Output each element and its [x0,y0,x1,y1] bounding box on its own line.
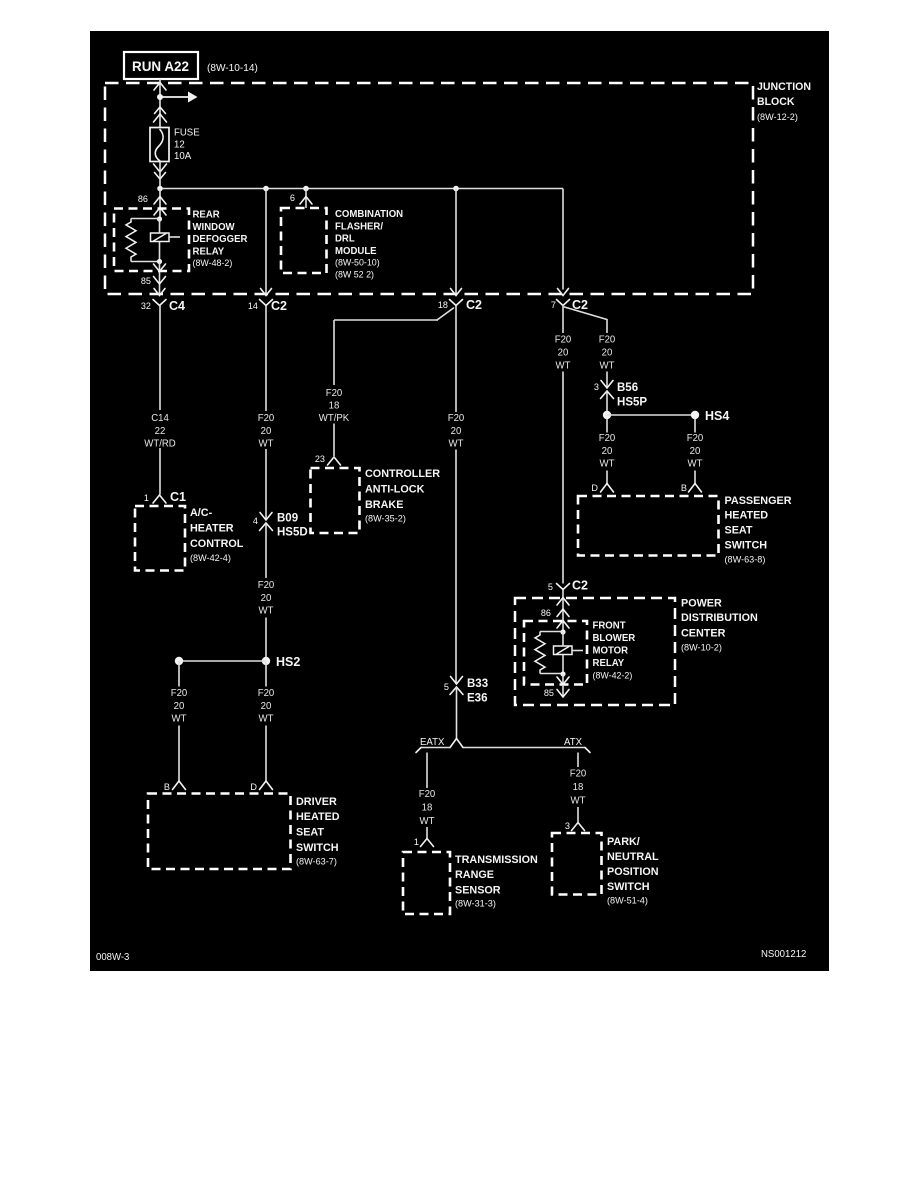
svg-text:86: 86 [138,194,148,205]
pin D chevron [260,781,273,790]
svg-text:6: 6 [290,193,295,204]
arrowhead at junction block border [451,289,462,296]
svg-text:F20: F20 [419,789,436,800]
svg-text:ANTI-LOCK: ANTI-LOCK [365,484,424,496]
svg-text:D: D [250,782,257,793]
svg-text:COMBINATION: COMBINATION [335,209,403,220]
wire relay pin 85 [562,674,564,697]
svg-text:DRL: DRL [335,234,355,245]
wire B33 to transmission split [456,687,458,739]
svg-text:WT: WT [259,606,274,617]
svg-text:86: 86 [541,608,551,619]
passenger heated seat switch label [725,495,792,566]
svg-text:CONTROLLER: CONTROLLER [365,468,440,480]
svg-text:SWITCH: SWITCH [725,540,768,552]
svg-text:SENSOR: SENSOR [455,885,501,897]
combination flasher / DRL module box [281,208,327,273]
svg-text:(8W-12-2): (8W-12-2) [757,112,798,123]
svg-text:PARK/: PARK/ [607,836,640,848]
svg-text:HS4: HS4 [705,408,730,423]
svg-text:F20: F20 [687,433,704,444]
svg-text:WT: WT [556,361,571,372]
svg-text:10A: 10A [174,151,191,162]
wire bus to flasher pin 6 [305,189,307,209]
svg-text:B09: B09 [277,511,298,525]
connector 5 C2 [548,578,588,594]
bus node at pin 6 drop [303,186,309,192]
splice HS4 [691,408,730,423]
wire splice to HS4 [607,414,695,416]
svg-text:85: 85 [544,688,554,699]
svg-text:RUN A22: RUN A22 [132,58,189,74]
svg-text:WINDOW: WINDOW [193,222,236,233]
relay coil top node [560,629,565,634]
wire connector C4 to A/C heater control [159,306,161,411]
svg-text:POWER: POWER [681,598,722,610]
pin B chevron [173,781,186,790]
svg-text:BLOCK: BLOCK [757,96,795,108]
svg-text:DEFOGGER: DEFOGGER [193,234,249,245]
in-line connector B33 E36 [444,676,489,705]
svg-text:3: 3 [594,382,599,393]
power distribution center label [681,598,758,654]
svg-text:20: 20 [261,426,272,437]
svg-text:TRANSMISSION: TRANSMISSION [455,854,538,866]
svg-text:20: 20 [602,348,613,359]
svg-text:HS5P: HS5P [617,395,647,409]
svg-text:MOTOR: MOTOR [593,646,629,657]
wire 5 C2 into power distribution center [562,590,564,633]
pin 86 chevron [557,609,569,617]
power distribution center outer box [515,598,675,705]
svg-text:B: B [681,483,687,494]
svg-text:4: 4 [253,516,258,527]
wire HS2 right leg down to pin D [265,661,267,687]
controller anti-lock brake box [311,468,360,533]
svg-text:HEATED: HEATED [296,811,340,823]
svg-text:CONTROL: CONTROL [190,538,244,550]
svg-text:(8W-31-3): (8W-31-3) [455,899,496,910]
relay contact element [151,233,181,242]
svg-text:(8W-63-8): (8W-63-8) [725,555,766,566]
svg-text:F20: F20 [448,413,465,424]
connector 32 C4 [141,298,186,313]
svg-text:18: 18 [422,803,433,814]
svg-text:(8W-42-4): (8W-42-4) [190,553,231,564]
svg-text:WT: WT [172,714,187,725]
front blower motor relay box [524,621,587,685]
svg-text:F20: F20 [258,688,275,699]
chevron at relay box edge [154,208,166,216]
junction block dashed outline [105,83,753,294]
wire B56 to splice dot [606,391,608,411]
svg-text:FRONT: FRONT [593,621,626,632]
svg-text:32: 32 [141,301,151,312]
svg-text:POSITION: POSITION [607,866,659,878]
wire bus to connector 18 C2 [455,189,457,295]
svg-text:WT/RD: WT/RD [144,439,176,450]
wire 18 C2 down to B33 E36 [455,306,457,413]
svg-text:20: 20 [174,701,185,712]
svg-text:E36: E36 [467,691,488,705]
svg-text:ATX: ATX [564,737,582,748]
relay coil top node [157,216,162,221]
svg-text:MODULE: MODULE [335,246,377,257]
svg-text:B: B [164,782,170,793]
svg-text:(8W-10-14): (8W-10-14) [207,62,258,74]
pin 86 chevron [154,197,166,205]
wire from RUN A22 down to fuse [159,79,161,128]
connector 14 C2 [248,298,287,313]
svg-text:18: 18 [438,300,448,311]
pin 85 chevron [154,277,166,285]
svg-text:HEATER: HEATER [190,523,234,535]
junction block internal bus wire [160,188,563,190]
splice node left [603,411,611,419]
svg-text:C14: C14 [151,413,169,424]
relay coil resistor [535,635,545,670]
svg-text:20: 20 [602,446,613,457]
svg-text:A/C-: A/C- [190,507,212,519]
svg-text:(8W-35-2): (8W-35-2) [365,514,406,525]
svg-text:5: 5 [548,582,553,593]
svg-text:C2: C2 [271,298,287,313]
svg-text:WT/PK: WT/PK [319,413,350,424]
wire bus to relay pin 86 [159,189,161,220]
node with branch arrow [157,94,163,100]
wire relay pin 85 down [159,262,161,295]
svg-text:(8W-50-10): (8W-50-10) [335,258,380,268]
pin D chevron [601,484,614,493]
svg-text:WT: WT [259,439,274,450]
wire splice to pin D [606,419,608,433]
splice HS2 [175,654,300,669]
svg-text:20: 20 [261,593,272,604]
svg-text:C2: C2 [466,297,482,312]
svg-text:B33: B33 [467,676,488,690]
wire 7 C2 diagonal to B56 branch [565,307,608,320]
svg-text:EATX: EATX [420,737,445,748]
svg-text:HS2: HS2 [276,654,300,669]
svg-text:WT: WT [571,796,586,807]
svg-text:(8W-48-2): (8W-48-2) [193,258,233,268]
svg-text:20: 20 [558,348,569,359]
svg-text:WT: WT [600,459,615,470]
bus node at pin 14 drop [263,186,269,192]
wire fuse to bus [159,161,161,189]
svg-text:F20: F20 [258,580,275,591]
A/C heater control box [135,506,185,571]
svg-text:(8W 52 2): (8W 52 2) [335,270,374,280]
svg-text:F20: F20 [599,433,616,444]
svg-text:18: 18 [573,782,584,793]
svg-text:(8W-63-7): (8W-63-7) [296,857,337,868]
svg-text:F20: F20 [171,688,188,699]
relay coil wiring [131,218,160,220]
svg-text:RELAY: RELAY [193,246,225,257]
controller anti-lock brake label [365,468,440,525]
wire connector 14 C2 down [265,306,267,412]
svg-text:12: 12 [174,140,185,151]
svg-text:(8W-42-2): (8W-42-2) [593,671,633,681]
svg-text:7: 7 [551,300,556,311]
svg-text:D: D [591,483,598,494]
relay contact element [554,646,584,655]
power source label RUN A22 [124,52,198,79]
svg-text:REAR: REAR [193,210,221,221]
svg-text:WT: WT [688,459,703,470]
pin 23 chevron [328,457,341,465]
relay coil bottom node [157,259,162,264]
fuse 12 10A [150,128,200,163]
pin 6 chevron [300,197,312,205]
svg-text:CENTER: CENTER [681,628,725,640]
junction block label [757,81,811,123]
svg-text:WT: WT [259,714,274,725]
connector 7 C2 [551,297,588,312]
svg-text:18: 18 [329,401,340,412]
pin B chevron [689,484,702,493]
in-line connector chevrons above fuse [155,107,166,114]
svg-text:5: 5 [444,682,449,693]
chevron at PDC box edge [557,598,569,606]
svg-text:F20: F20 [570,769,587,780]
svg-text:HEATED: HEATED [725,510,769,522]
svg-text:NS001212: NS001212 [761,949,807,960]
svg-text:PASSENGER: PASSENGER [725,495,792,507]
arrowhead at junction block border for pin 7 [558,289,569,296]
wire HS2 left leg down to pin B [178,661,180,687]
svg-text:85: 85 [141,276,151,287]
svg-text:JUNCTION: JUNCTION [757,81,811,93]
chevron at relay box bottom edge [557,677,569,685]
transmission range sensor label [455,854,538,910]
connector 18 C2 [438,297,482,312]
in-line connector chevrons below fuse [155,173,166,180]
svg-text:RANGE: RANGE [455,869,495,881]
svg-text:RELAY: RELAY [593,658,625,669]
wire bus to connector 14 C2 [265,189,267,295]
bus node at pin 18 drop [453,186,459,192]
chevron at relay box bottom edge [154,264,166,272]
svg-text:C1: C1 [170,489,186,504]
chevron at relay box edge [557,621,569,629]
svg-text:C2: C2 [572,578,588,593]
park/neutral position switch label [607,836,659,907]
transmission range sensor box [403,852,450,914]
svg-text:F20: F20 [258,413,275,424]
diagram black background panel [90,31,829,971]
svg-text:BRAKE: BRAKE [365,499,404,511]
pin 1 chevron [421,839,434,847]
front blower motor relay label [593,621,636,681]
svg-text:(8W-10-2): (8W-10-2) [681,643,722,654]
svg-text:23: 23 [315,454,325,465]
wire B09 to splice HS2 [265,523,267,578]
passenger heated seat switch box [578,496,719,556]
relay coil wiring [540,631,563,633]
rear window defogger relay box [114,209,189,272]
svg-text:WT: WT [600,361,615,372]
svg-text:1: 1 [144,493,149,504]
relay coil resistor [126,222,136,257]
svg-text:F20: F20 [326,388,343,399]
svg-text:DRIVER: DRIVER [296,796,337,808]
svg-text:22: 22 [155,426,166,437]
svg-text:14: 14 [248,301,258,312]
svg-text:BLOWER: BLOWER [593,633,636,644]
svg-text:SWITCH: SWITCH [607,881,650,893]
svg-text:FLASHER/: FLASHER/ [335,221,383,232]
svg-text:(8W-51-4): (8W-51-4) [607,896,648,907]
svg-text:WT: WT [420,816,435,827]
A/C heater control label [190,507,244,564]
svg-text:SWITCH: SWITCH [296,842,339,854]
in-line connector B09 HS5D [253,511,308,539]
arrowhead at junction block border [154,289,165,296]
svg-text:DISTRIBUTION: DISTRIBUTION [681,612,758,624]
park/neutral position switch box [552,833,602,895]
wire from 18 C2 to controller anti-lock brake [437,308,454,320]
relay label REAR WINDOW DEFOGGER RELAY [193,210,249,269]
wire HS4 to pin B [694,419,696,433]
wire ATX to park/neutral position switch [577,753,579,768]
chevron crossing junction block border [154,83,166,91]
in-line connector B56 HS5P [594,380,647,409]
svg-text:WT: WT [449,439,464,450]
svg-text:20: 20 [261,701,272,712]
svg-text:3: 3 [565,821,570,832]
arrowhead at junction block border [261,289,272,296]
driver heated seat switch box [148,794,291,870]
pin 85 chevron [557,690,569,698]
svg-text:20: 20 [690,446,701,457]
svg-text:F20: F20 [599,335,616,346]
svg-text:SEAT: SEAT [725,525,753,537]
svg-text:20: 20 [451,426,462,437]
pin 3 chevron [572,823,585,831]
flasher label COMBINATION FLASHER DRL MODULE [335,209,403,280]
svg-text:008W-3: 008W-3 [96,952,130,963]
svg-text:HS5D: HS5D [277,525,308,539]
svg-text:F20: F20 [555,335,572,346]
svg-text:C4: C4 [169,298,186,313]
svg-text:SEAT: SEAT [296,827,324,839]
svg-text:FUSE: FUSE [174,128,200,139]
bus node at fuse drop [157,186,163,192]
svg-text:B56: B56 [617,380,638,394]
pin 1 chevron at A/C heater control [153,495,166,503]
svg-text:NEUTRAL: NEUTRAL [607,851,659,863]
driver heated seat switch label [296,796,340,868]
split junction EATX/ATX [416,739,590,753]
relay coil bottom node [560,671,565,676]
wire EATX to transmission range sensor [426,753,428,789]
wire 7 C2 down to 5 C2 [562,306,564,334]
svg-text:1: 1 [414,837,419,848]
